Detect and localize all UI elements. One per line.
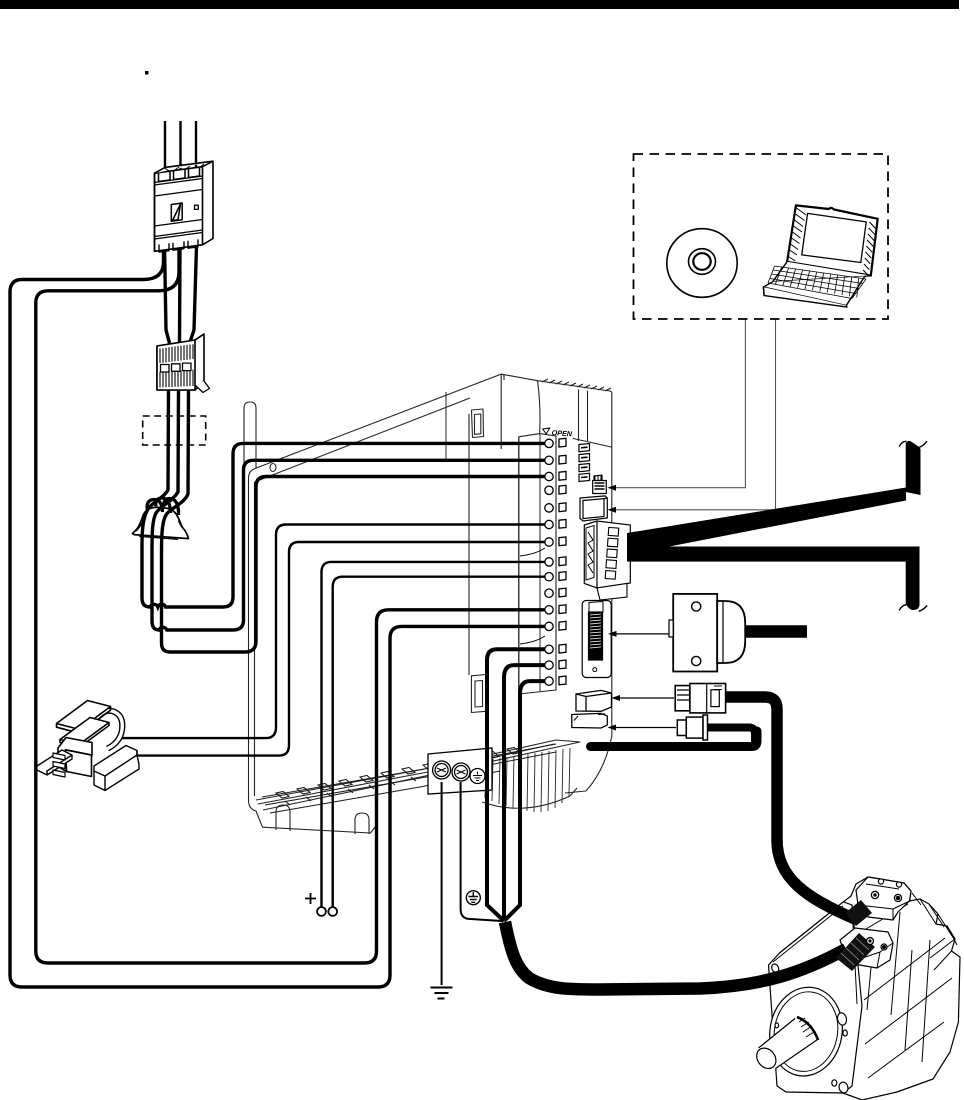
svg-text:OPEN: OPEN [551,428,573,438]
